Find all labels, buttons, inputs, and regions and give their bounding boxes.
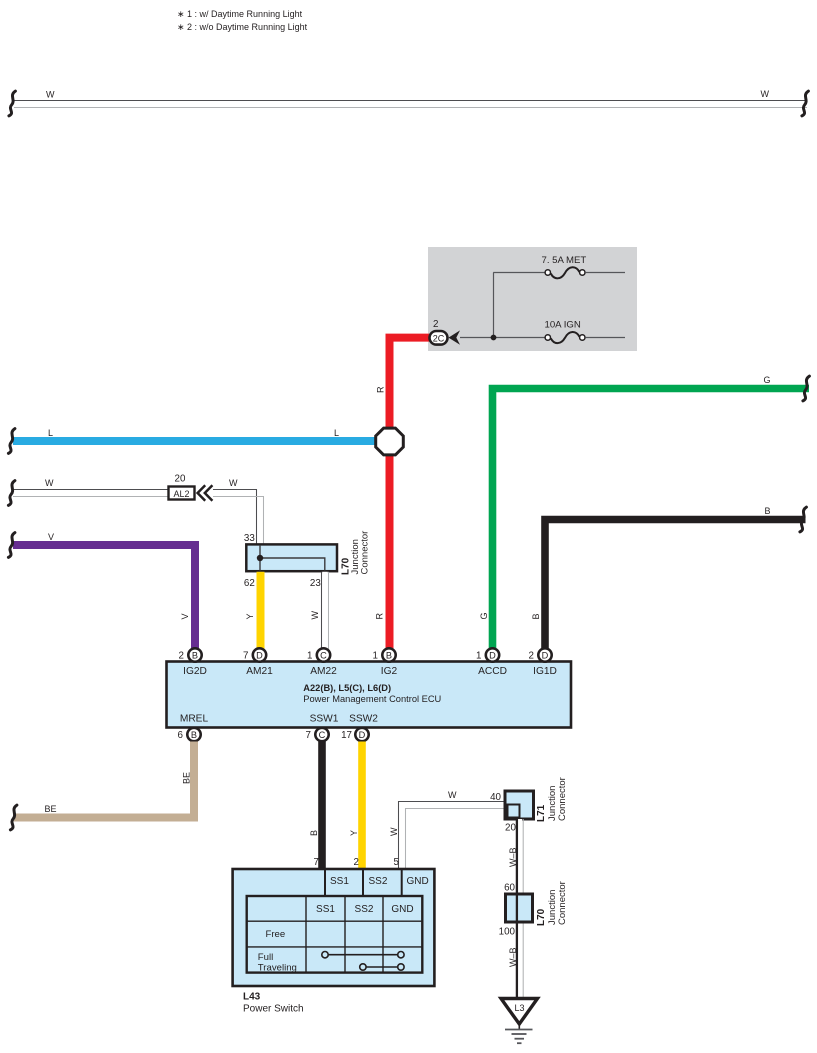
svg-text:SSW2: SSW2	[349, 713, 378, 724]
svg-text:Power Management Control ECU: Power Management Control ECU	[303, 694, 441, 704]
W-B black edge line over L70	[516, 819, 518, 998]
terminal 6 B MREL	[178, 728, 201, 741]
svg-text:W: W	[229, 478, 238, 488]
svg-text:2C: 2C	[433, 334, 445, 344]
svg-text:62: 62	[244, 578, 255, 589]
terminal 1 D ACCD	[476, 648, 499, 661]
svg-text:1: 1	[307, 651, 312, 662]
svg-text:B: B	[192, 650, 198, 660]
L43 inner contact table	[247, 896, 423, 973]
fuse block (gray)	[428, 247, 637, 351]
svg-text:Y: Y	[245, 613, 255, 619]
svg-text:V: V	[48, 532, 54, 542]
svg-text:SS1: SS1	[330, 876, 349, 887]
break symbol G right	[803, 376, 810, 401]
svg-text:17: 17	[341, 730, 352, 741]
svg-text:2: 2	[354, 857, 359, 868]
wire Y to AM21 (yellow)	[257, 572, 265, 650]
wire W to AM22 (white)	[322, 572, 329, 650]
connector 2C oval	[430, 319, 448, 345]
terminal 1 C AM22	[307, 648, 330, 661]
svg-text:AM21: AM21	[246, 666, 273, 677]
junction dot in fuse block	[491, 335, 497, 341]
svg-text:SS2: SS2	[355, 904, 374, 915]
contact line SS1-GND	[322, 952, 404, 958]
svg-text:R: R	[375, 613, 385, 620]
junction connector L70 (mid)	[244, 531, 371, 590]
svg-text:C: C	[319, 730, 326, 740]
svg-text:L43: L43	[243, 992, 261, 1003]
fuse 7.5A MET	[493, 255, 625, 279]
svg-text:SS2: SS2	[369, 876, 388, 887]
svg-text:B: B	[765, 506, 771, 516]
svg-text:2: 2	[529, 651, 534, 662]
svg-text:V: V	[180, 613, 190, 619]
svg-text:L: L	[334, 428, 339, 438]
svg-text:BE: BE	[45, 804, 57, 814]
svg-text:Y: Y	[349, 830, 359, 836]
junction connector L71	[505, 777, 568, 822]
svg-text:G: G	[479, 612, 489, 619]
break symbol B right	[800, 507, 807, 532]
svg-text:Full: Full	[258, 952, 273, 963]
svg-text:GND: GND	[391, 904, 413, 915]
svg-text:AL2: AL2	[173, 489, 189, 499]
svg-text:ACCD: ACCD	[478, 666, 507, 677]
svg-text:L71: L71	[536, 804, 547, 822]
terminal 1 B IG2	[373, 648, 396, 661]
svg-text:Traveling: Traveling	[258, 962, 297, 973]
svg-text:SSW1: SSW1	[310, 713, 339, 724]
wire Y from SSW2 (yellow)	[358, 742, 366, 870]
svg-text:D: D	[489, 650, 496, 660]
contact line SS2-GND	[360, 964, 404, 970]
wire W-B from L71 to ground (white-black)	[508, 819, 523, 998]
svg-text:20: 20	[175, 474, 186, 485]
svg-text:IG2D: IG2D	[183, 666, 207, 677]
svg-text:Power Switch: Power Switch	[243, 1004, 304, 1015]
svg-text:Connector: Connector	[557, 881, 568, 925]
svg-text:7: 7	[314, 857, 319, 868]
svg-text:40: 40	[490, 792, 501, 803]
wire W to AL2 (white)	[13, 478, 168, 497]
svg-text:∗ 1 : w/ Daytime Running Light: ∗ 1 : w/ Daytime Running Light	[177, 9, 303, 19]
junction connector L70 (lower)	[506, 881, 569, 926]
svg-text:R: R	[376, 386, 386, 393]
svg-text:Connector: Connector	[557, 777, 568, 821]
svg-text:L70: L70	[536, 908, 547, 926]
wire V (violet)	[13, 545, 195, 650]
wire W from GND to L71 (white)	[389, 790, 505, 869]
svg-text:A22(B), L5(C), L6(D): A22(B), L5(C), L6(D)	[303, 683, 391, 693]
svg-text:MREL: MREL	[180, 713, 209, 724]
svg-text:10A IGN: 10A IGN	[545, 320, 581, 331]
svg-text:∗ 2 : w/o Daytime Running Ligh: ∗ 2 : w/o Daytime Running Light	[177, 22, 308, 32]
svg-text:6: 6	[178, 730, 184, 741]
svg-text:7: 7	[243, 651, 248, 662]
wire inside fuse block	[493, 273, 495, 338]
svg-text:1: 1	[476, 651, 481, 662]
svg-text:L3: L3	[514, 1003, 524, 1013]
svg-text:23: 23	[310, 578, 321, 589]
svg-text:C: C	[320, 650, 327, 660]
svg-text:SS1: SS1	[316, 904, 335, 915]
svg-text:G: G	[764, 375, 771, 385]
svg-text:60: 60	[504, 883, 515, 894]
arrow into 2C	[449, 330, 461, 344]
wire W from AL2 to L70 (white)	[213, 478, 264, 545]
svg-text:Connector: Connector	[360, 531, 371, 575]
ground L3	[501, 999, 538, 1044]
svg-text:B: B	[386, 650, 392, 660]
svg-text:W: W	[45, 478, 54, 488]
terminal 2 D IG1D	[529, 648, 552, 661]
svg-text:W: W	[310, 611, 320, 620]
svg-text:IG2: IG2	[381, 666, 398, 677]
wire B (black) right	[545, 520, 806, 651]
terminal 2 B IG2D	[179, 648, 202, 661]
terminal 7 C SSW1	[306, 728, 329, 741]
terminal 17 D SSW2	[341, 728, 369, 741]
svg-text:L: L	[48, 428, 53, 438]
svg-text:BE: BE	[182, 772, 192, 784]
svg-text:20: 20	[505, 823, 516, 834]
wire L (blue)	[13, 437, 377, 445]
svg-text:W: W	[761, 89, 770, 99]
rotated wire color labels above ECU	[180, 611, 541, 620]
svg-text:7: 7	[306, 730, 311, 741]
svg-text:W: W	[448, 790, 457, 800]
svg-text:1: 1	[373, 651, 378, 662]
wire B from SSW1 (black)	[318, 742, 326, 870]
svg-text:Free: Free	[266, 929, 286, 940]
wire W top (white)	[14, 89, 807, 108]
ECU box A22(B), L5(C), L6(D) Power Management Control ECU	[167, 662, 572, 728]
svg-text:D: D	[359, 730, 366, 740]
svg-text:GND: GND	[407, 876, 429, 887]
svg-text:B: B	[191, 730, 197, 740]
connector AL2	[169, 474, 195, 500]
break symbol V left	[8, 533, 15, 558]
svg-text:AM22: AM22	[310, 666, 337, 677]
terminal 7 D AM21	[243, 648, 266, 661]
svg-text:W: W	[46, 90, 55, 100]
break symbol BE left	[10, 805, 17, 830]
svg-text:B: B	[531, 613, 541, 619]
svg-text:D: D	[542, 650, 549, 660]
svg-text:B: B	[309, 830, 319, 836]
svg-text:2: 2	[433, 319, 438, 330]
octagon junction	[376, 428, 404, 455]
power switch L43 box	[233, 869, 435, 986]
svg-text:7. 5A MET: 7. 5A MET	[542, 255, 587, 266]
double chevron after AL2	[198, 485, 206, 500]
svg-text:D: D	[256, 650, 263, 660]
wire G (green)	[493, 389, 810, 651]
svg-text:33: 33	[244, 533, 255, 544]
break symbol W left	[8, 481, 15, 506]
svg-text:W: W	[389, 827, 399, 836]
svg-text:5: 5	[394, 857, 400, 868]
svg-text:IG1D: IG1D	[533, 666, 557, 677]
break symbol top-right	[802, 91, 809, 116]
fuse 10A IGN	[460, 320, 625, 344]
svg-text:2: 2	[179, 651, 184, 662]
break symbol top-left	[9, 91, 16, 116]
svg-text:100: 100	[499, 927, 516, 938]
wire BE (beige) from MREL	[13, 742, 194, 818]
wire R (red)	[390, 338, 430, 650]
break symbol L left	[8, 429, 15, 454]
